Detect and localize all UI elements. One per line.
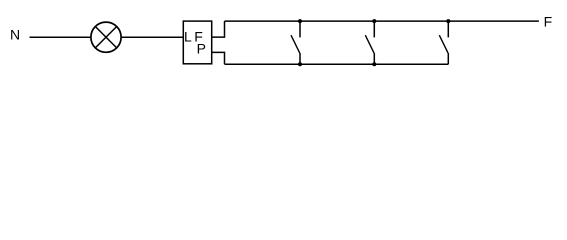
junction dot S2 top — [372, 19, 376, 23]
switch S2 blade — [365, 35, 374, 53]
svg-text:P: P — [197, 41, 206, 57]
svg-text:N: N — [10, 27, 20, 43]
lamp E1 cross stroke 1 — [95, 27, 116, 48]
lamp E1 circle — [91, 22, 121, 52]
wire bottom rail — [225, 63, 449, 65]
switch S2 bottom stub — [373, 53, 375, 64]
switch S3 blade — [439, 35, 448, 53]
switch S2 top stub — [373, 21, 375, 37]
switch S1 bottom stub — [299, 53, 301, 64]
svg-text:F: F — [544, 13, 553, 29]
switch S3 top stub — [447, 21, 449, 37]
box U1 (L F P device) — [183, 21, 211, 64]
junction dot S3 top — [446, 19, 450, 23]
junction dot S1 bottom — [298, 62, 302, 66]
wire lamp to box — [122, 36, 184, 38]
switch S1 top stub — [299, 21, 301, 37]
switch S3 bottom stub — [447, 53, 449, 64]
wire top rail — [225, 20, 539, 22]
wire upper stub from box terminal F — [212, 21, 225, 37]
junction dot S2 bottom — [372, 62, 376, 66]
lamp E1 cross stroke 2 — [95, 27, 116, 48]
wire N to lamp — [30, 36, 91, 38]
wire lower stub from box terminal P — [212, 52, 225, 64]
svg-text:L: L — [184, 29, 192, 45]
switch S1 blade — [291, 35, 300, 53]
junction dot S1 top — [298, 19, 302, 23]
